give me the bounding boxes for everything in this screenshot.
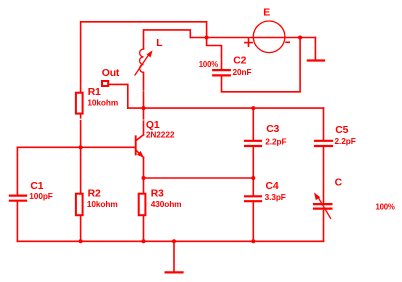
minus sign of E bbox=[286, 41, 289, 43]
resistor R1 bbox=[80, 115, 82, 148]
svg-text:100%: 100% bbox=[199, 60, 218, 69]
capacitor C5 bbox=[323, 108, 325, 140]
svg-text:R1: R1 bbox=[88, 87, 101, 98]
svg-text:C3: C3 bbox=[266, 124, 279, 135]
capacitor C3 bbox=[252, 108, 254, 140]
node junction R3 bottom bbox=[142, 239, 146, 243]
ground right of E bbox=[314, 38, 316, 60]
node junction at C2 tap bbox=[205, 36, 209, 40]
inductor L coil bbox=[140, 49, 144, 72]
capacitor C4 bbox=[252, 178, 254, 195]
transistor Q1 bbox=[136, 135, 144, 158]
svg-text:2.2pF: 2.2pF bbox=[265, 137, 286, 147]
node junction C3 branch top bbox=[251, 106, 255, 110]
variable capacitor C bbox=[314, 204, 331, 209]
wire top-left loop bbox=[81, 22, 207, 92]
svg-text:R3: R3 bbox=[151, 189, 164, 200]
node junction C4 bottom bbox=[251, 239, 255, 243]
node junction C3/C4 bbox=[251, 176, 255, 180]
capacitor C2 bbox=[213, 70, 230, 75]
source E circle bbox=[253, 21, 285, 53]
svg-text:C4: C4 bbox=[266, 181, 279, 192]
node junction L / Q1 collector bbox=[142, 106, 146, 110]
wire base rail bbox=[17, 146, 134, 148]
resistor R2 bbox=[80, 147, 82, 192]
plus sign of E bbox=[245, 39, 252, 46]
wire variable capacitor bottom bbox=[323, 210, 325, 242]
wire collector drop bbox=[143, 108, 145, 135]
wire emitter drop bbox=[143, 158, 145, 179]
svg-text:430ohm: 430ohm bbox=[151, 199, 182, 209]
svg-text:2.2pF: 2.2pF bbox=[335, 136, 356, 146]
node junction emitter rail left bbox=[142, 176, 146, 180]
svg-text:10kohm: 10kohm bbox=[87, 97, 118, 107]
node junction R1/R2 bbox=[79, 145, 83, 149]
svg-text:20nF: 20nF bbox=[233, 67, 252, 77]
inductor L arrow bbox=[135, 54, 150, 76]
wire C2 top step bbox=[207, 38, 222, 70]
svg-text:Out: Out bbox=[102, 68, 120, 79]
wire inductor top step bbox=[144, 30, 191, 49]
node junction right of E bbox=[298, 36, 302, 40]
resistor R3 bbox=[143, 178, 145, 193]
svg-text:C: C bbox=[335, 177, 343, 188]
wire bottom rail bbox=[17, 240, 323, 242]
wire from Out pin bbox=[109, 84, 128, 108]
svg-text:3.3pF: 3.3pF bbox=[265, 192, 286, 202]
svg-text:E: E bbox=[263, 8, 270, 19]
ground bottom bbox=[173, 241, 175, 271]
svg-text:L: L bbox=[156, 38, 163, 49]
svg-text:R2: R2 bbox=[88, 189, 101, 200]
wire supply rail through source E bbox=[190, 37, 315, 39]
pin Out square bbox=[102, 81, 108, 86]
wire emitter rail bbox=[144, 177, 254, 179]
wire C2 bottom loop bbox=[222, 38, 301, 92]
wire mid rail bbox=[128, 107, 324, 109]
wire inductor bottom bbox=[143, 72, 145, 108]
svg-text:100pF: 100pF bbox=[29, 191, 53, 201]
svg-text:10kohm: 10kohm bbox=[87, 199, 118, 209]
node junction R2 bottom bbox=[79, 239, 83, 243]
svg-text:100%: 100% bbox=[376, 202, 395, 211]
node junction ground stem bbox=[172, 239, 176, 243]
svg-text:C5: C5 bbox=[335, 125, 348, 136]
capacitor C1 bbox=[16, 147, 18, 194]
svg-text:C2: C2 bbox=[233, 55, 246, 66]
svg-text:2N2222: 2N2222 bbox=[146, 130, 175, 140]
